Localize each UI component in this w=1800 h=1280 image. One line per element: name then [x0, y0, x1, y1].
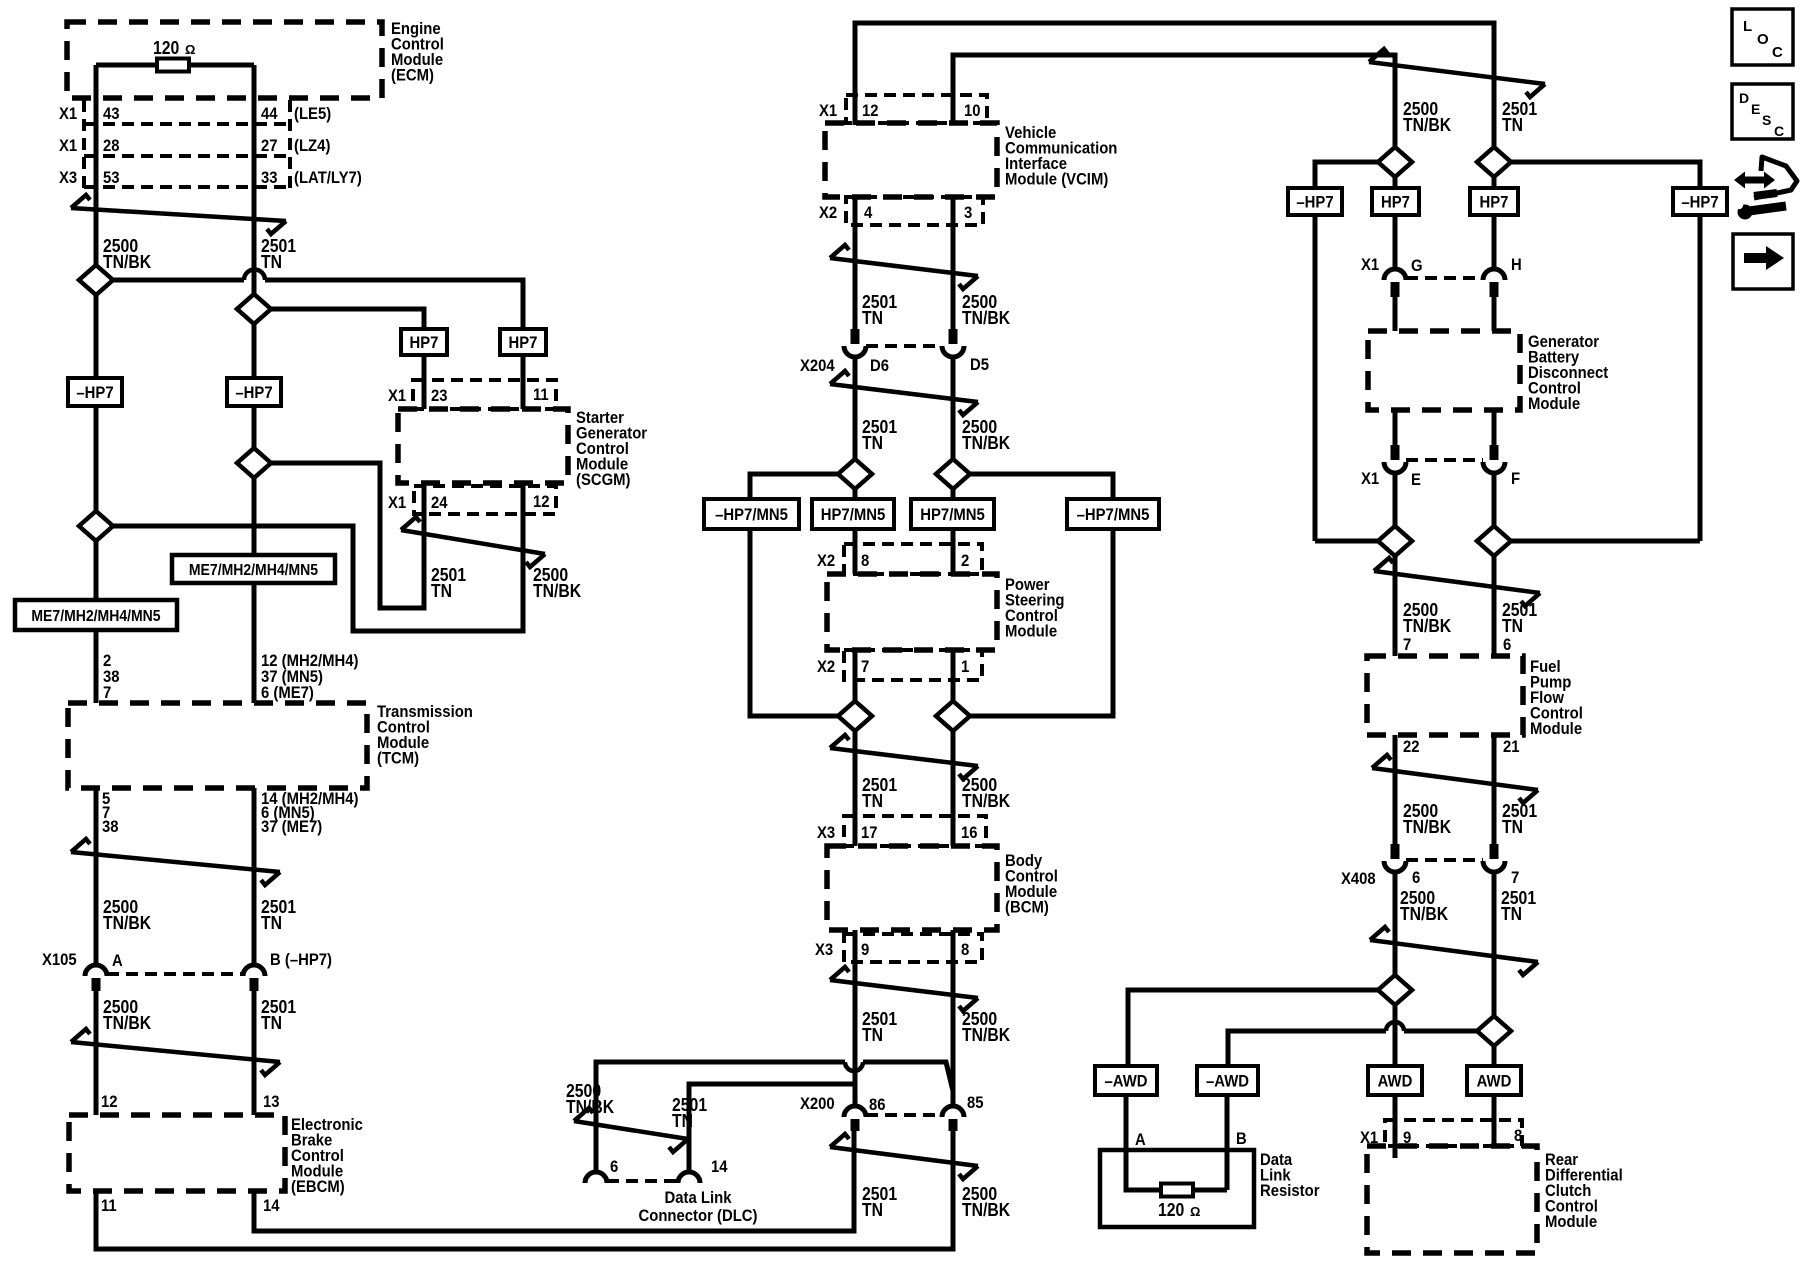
wire branch to -AWD left: [1128, 990, 1378, 1066]
wire branch to -HP7/MN5 right: [970, 474, 1113, 499]
svg-text:28: 28: [103, 136, 120, 155]
svg-text:TN: TN: [261, 913, 282, 933]
svg-text:Module: Module: [1005, 622, 1057, 641]
svg-text:X2: X2: [817, 657, 835, 676]
wire 2501 splice to FPFCM: [1492, 556, 1497, 656]
svg-text:24: 24: [431, 493, 448, 512]
svg-text:X1: X1: [59, 104, 77, 123]
svg-text:17: 17: [861, 823, 878, 842]
label box -AWD A: [1095, 1066, 1157, 1095]
svg-text:X200: X200: [800, 1094, 835, 1113]
wire 2501 splice to AWD: [1492, 1046, 1497, 1066]
svg-text:6 (ME7): 6 (ME7): [261, 683, 314, 702]
wire 2500 X105 to EBCM: [94, 991, 99, 1115]
wire 2501 diamond to HP7: [1492, 177, 1497, 188]
wire AWD to RDCCM pin 8: [1492, 1095, 1497, 1147]
connector row BCM X3 17/16: [844, 816, 986, 846]
svg-text:B: B: [1236, 1129, 1247, 1148]
label box HP7 right: [500, 329, 546, 355]
wire 2500 splice to AWD: [1393, 1005, 1398, 1066]
wire 2500 PSCM to splice: [951, 650, 956, 701]
splice diamond 2500 below PSCM: [936, 701, 970, 731]
wire 2501 TN VCIM pin 12 top bus to right section: [855, 23, 1494, 147]
svg-text:ME7/MH2/MH4/MN5: ME7/MH2/MH4/MN5: [31, 608, 160, 625]
svg-text:HP7: HP7: [509, 333, 538, 352]
row separator 2: [84, 154, 290, 158]
splice diamond 2501 top right: [1477, 147, 1511, 177]
wire 2500 TN/BK left trunk (ECM to X105): [94, 65, 99, 963]
icon LOC box: [1732, 9, 1793, 65]
svg-text:HP7: HP7: [1480, 193, 1509, 212]
label box HP7 on 2500: [1372, 188, 1419, 215]
svg-text:(LAT/LY7): (LAT/LY7): [294, 168, 362, 187]
svg-text:11: 11: [533, 385, 549, 404]
label box -HP7/MN5 left: [704, 499, 799, 529]
wire 2500 bus diagonal to X200 85: [863, 1062, 953, 1105]
twisted pair arrow below TCM: [71, 839, 280, 885]
module SCGM box: [398, 409, 568, 483]
wire branch to -HP7/MN5 left: [750, 474, 838, 499]
svg-text:HP7: HP7: [410, 333, 439, 352]
connector row PSCM X2 8/2: [844, 544, 982, 574]
module Generator Battery Disconnect Control Module box: [1368, 331, 1520, 410]
svg-text:X1: X1: [1361, 469, 1379, 488]
svg-text:(LZ4): (LZ4): [294, 136, 330, 155]
resistor 120 ohm data link: [1161, 1184, 1193, 1197]
svg-text:7: 7: [1403, 635, 1411, 654]
svg-text:O: O: [1757, 31, 1769, 48]
svg-text:TN: TN: [261, 1013, 282, 1033]
wire branch 2500 to HP7: [113, 280, 523, 329]
wire 2501 splice to PSCM: [853, 489, 858, 574]
svg-text:–HP7: –HP7: [76, 383, 113, 402]
wire F to splice: [1492, 473, 1497, 526]
inline connector X408: [1391, 844, 1400, 859]
wire 2500 DLC pin 6 riser and bus: [596, 1062, 845, 1171]
svg-text:(ECM): (ECM): [391, 66, 434, 85]
module EBCM box: [69, 1115, 285, 1191]
svg-text:X3: X3: [59, 168, 77, 187]
wire 2501 PSCM to splice: [853, 650, 858, 701]
svg-text:Module: Module: [1530, 719, 1582, 738]
svg-text:X1: X1: [1361, 255, 1379, 274]
svg-text:A: A: [112, 951, 123, 970]
wire 2500 X204 to splice: [951, 357, 956, 459]
svg-text:120: 120: [153, 38, 179, 58]
svg-text:TN: TN: [1501, 904, 1522, 924]
svg-text:D: D: [1739, 90, 1749, 106]
resistor 120 ohm inside ECM: [157, 59, 189, 72]
connector X1 E/F dashed link: [1406, 458, 1483, 462]
svg-text:F: F: [1511, 469, 1520, 488]
svg-text:1: 1: [961, 657, 969, 676]
wire -HP7/MN5 left return: [750, 529, 838, 716]
label box -AWD B: [1197, 1066, 1258, 1095]
svg-text:TN: TN: [862, 433, 883, 453]
connector DLC: [585, 1172, 607, 1183]
svg-text:X408: X408: [1341, 869, 1376, 888]
twisted pair arrow above FPFCM: [1374, 558, 1540, 606]
svg-text:–AWD: –AWD: [1206, 1072, 1249, 1091]
row separator 1: [84, 122, 290, 126]
module PSCM box: [827, 574, 997, 650]
wire GBDCM to X1 F: [1492, 410, 1497, 445]
label box HP7/MN5 right: [911, 499, 994, 529]
svg-text:(EBCM): (EBCM): [291, 1177, 345, 1196]
wire 2500 splice to PSCM: [951, 489, 956, 574]
svg-text:TN: TN: [672, 1111, 693, 1131]
connector rows ECM X1/X3: [84, 100, 290, 188]
svg-text:38: 38: [102, 817, 119, 836]
label box ME7/MH2/MH4/MN5 on 2501: [172, 555, 335, 583]
wire AWD to RDCCM pin 9: [1393, 1095, 1398, 1158]
svg-text:10: 10: [964, 101, 981, 120]
wire E to splice: [1393, 473, 1398, 526]
svg-text:TN/BK: TN/BK: [962, 1025, 1010, 1045]
wire HP7 to X1 G: [1393, 215, 1398, 268]
svg-text:E: E: [1411, 470, 1421, 489]
svg-text:33: 33: [261, 168, 278, 187]
twisted pair arrow below X204: [830, 371, 978, 415]
wire 2501 X204 to splice: [853, 357, 858, 459]
label box AWD left: [1368, 1066, 1422, 1095]
svg-text:Module (VCIM): Module (VCIM): [1005, 170, 1108, 189]
wire ECM internal resistor leads: [96, 63, 254, 68]
wire -HP7 left return: [1315, 215, 1378, 541]
wire GBDCM to X1 E: [1393, 410, 1398, 445]
connector X200 dashed link: [866, 1113, 941, 1117]
wire branch 2501 to HP7: [271, 309, 424, 329]
svg-text:6: 6: [610, 1157, 618, 1176]
svg-text:–HP7/MN5: –HP7/MN5: [715, 505, 788, 524]
svg-text:X1: X1: [59, 136, 77, 155]
splice diamond 2500 AWD: [1378, 975, 1412, 1005]
wire 2500 splice to FPFCM: [1393, 556, 1398, 656]
splice diamond 2501 mid: [237, 448, 271, 478]
module VCIM box: [825, 123, 997, 197]
svg-text:C: C: [1774, 123, 1784, 139]
wire 2501 TN right trunk (ECM to X105): [252, 65, 257, 963]
svg-text:Connector (DLC): Connector (DLC): [639, 1206, 758, 1225]
svg-text:TN/BK: TN/BK: [1403, 115, 1451, 135]
svg-text:D5: D5: [970, 355, 989, 374]
svg-text:–HP7/MN5: –HP7/MN5: [1077, 505, 1150, 524]
svg-text:8: 8: [861, 551, 869, 570]
svg-text:X3: X3: [817, 823, 835, 842]
svg-text:A: A: [1135, 1130, 1146, 1149]
label box -HP7 on 2500 trunk: [68, 378, 122, 406]
connector DLC dashed link: [607, 1179, 678, 1183]
svg-text:TN/BK: TN/BK: [962, 433, 1010, 453]
svg-text:TN: TN: [1502, 817, 1523, 837]
label box -HP7 far left right-section: [1288, 188, 1342, 215]
label box HP7/MN5 left: [812, 499, 894, 529]
label box ME7/MH2/MH4/MN5 on 2500: [15, 600, 177, 630]
svg-text:7: 7: [861, 657, 869, 676]
label box -HP7/MN5 right: [1067, 499, 1159, 529]
svg-text:TN: TN: [862, 308, 883, 328]
splice diamond 2500 upper: [79, 265, 113, 295]
splice diamond 2501 mid right: [1477, 526, 1511, 556]
svg-text:22: 22: [1403, 737, 1420, 756]
svg-text:23: 23: [431, 386, 448, 405]
twisted pair arrow above BCM: [830, 735, 978, 779]
wire branch to -HP7 left: [1315, 162, 1378, 188]
twisted pair arrow below ECM: [71, 195, 286, 234]
wire 2500 diamond to HP7: [1393, 177, 1398, 188]
svg-text:Ω: Ω: [185, 42, 195, 57]
svg-text:8: 8: [1514, 1126, 1522, 1145]
svg-text:37 (ME7): 37 (ME7): [261, 817, 322, 836]
svg-text:86: 86: [869, 1095, 886, 1114]
inline connector X200: [844, 1106, 866, 1117]
svg-text:HP7: HP7: [1381, 193, 1410, 212]
svg-text:ME7/MH2/MH4/MN5: ME7/MH2/MH4/MN5: [189, 562, 318, 579]
crossover hop 2500 branch over 2501 trunk: [244, 270, 265, 281]
twisted pair arrow below VCIM: [830, 245, 978, 289]
svg-text:16: 16: [961, 823, 978, 842]
svg-text:53: 53: [103, 168, 120, 187]
wire HP7 to SCGM pin 11: [521, 355, 526, 409]
svg-text:4: 4: [864, 203, 873, 222]
svg-text:TN: TN: [862, 1200, 883, 1220]
svg-text:3: 3: [964, 203, 972, 222]
svg-text:TN: TN: [862, 791, 883, 811]
svg-text:TN: TN: [1502, 115, 1523, 135]
svg-text:S: S: [1762, 112, 1771, 128]
box Data Link Resistor: [1100, 1150, 1254, 1227]
svg-text:6: 6: [1503, 635, 1511, 654]
svg-text:Ω: Ω: [1190, 1204, 1200, 1219]
svg-text:–AWD: –AWD: [1105, 1072, 1148, 1091]
svg-text:27: 27: [261, 136, 278, 155]
module BCM box: [827, 846, 997, 930]
wire HP7 to SCGM pin 23: [422, 355, 427, 409]
svg-text:14: 14: [711, 1157, 728, 1176]
svg-text:6: 6: [1412, 868, 1420, 887]
svg-text:X1: X1: [388, 493, 406, 512]
svg-text:Data Link: Data Link: [665, 1188, 732, 1207]
svg-text:AWD: AWD: [1378, 1072, 1413, 1091]
module Fuel Pump Flow Control Module box: [1367, 656, 1523, 735]
wire data link resistor loop: [1126, 1095, 1227, 1190]
connector row PSCM X2 7/1: [844, 650, 982, 680]
icon double arrow with wrench: [1734, 157, 1797, 220]
crossover hop -AWD branch over 2500 wire: [1386, 1022, 1404, 1031]
connector X105 dashed link: [107, 972, 243, 976]
svg-text:X204: X204: [800, 356, 835, 375]
wire 2500 BCM pin 8 to X200: [951, 930, 956, 1105]
wire 2501 DLC pin 14 riser to junction: [689, 1084, 854, 1171]
connector X1 G/H dashed link: [1406, 276, 1483, 280]
label box HP7 left: [401, 329, 447, 355]
svg-text:(TCM): (TCM): [377, 749, 419, 768]
svg-text:44: 44: [261, 104, 278, 123]
label box HP7 on 2501: [1470, 188, 1518, 215]
svg-text:X1: X1: [819, 101, 837, 120]
svg-text:–HP7: –HP7: [1681, 193, 1718, 212]
inline connector X204: [851, 329, 860, 344]
svg-text:Module: Module: [1528, 394, 1580, 413]
svg-text:C: C: [1772, 44, 1783, 61]
twisted pair arrow below BCM: [830, 967, 978, 1011]
splice diamond 2501 below PSCM: [838, 701, 872, 731]
svg-text:9: 9: [861, 940, 869, 959]
svg-text:X105: X105: [42, 950, 77, 969]
connector row VCIM X2 4/3: [846, 197, 983, 225]
twisted pair arrow below X408: [1370, 927, 1538, 975]
wire -HP7 right return: [1511, 215, 1700, 541]
svg-text:E: E: [1751, 101, 1760, 117]
splice diamond 2500 mid: [79, 511, 113, 541]
wire 2500 bottom bus EBCM pin 11 to X200 85: [96, 1131, 953, 1249]
connector X204 dashed link: [866, 344, 941, 348]
twisted pair arrow below SCGM: [401, 517, 545, 567]
wire 2500 X408 to splice: [1393, 872, 1398, 975]
wire 2501 VCIM to X204: [853, 197, 858, 329]
svg-text:X1: X1: [388, 386, 406, 405]
svg-text:X2: X2: [817, 551, 835, 570]
label box -HP7 on 2501 trunk: [227, 378, 281, 406]
splice diamond 2500 above PSCM: [936, 459, 970, 489]
svg-text:TN/BK: TN/BK: [962, 308, 1010, 328]
twisted pair arrow top right: [1369, 49, 1545, 97]
wire 2500 TN/BK VCIM pin 10 top bus to right section: [953, 55, 1395, 147]
svg-text:HP7/MN5: HP7/MN5: [821, 505, 886, 524]
label box AWD right: [1467, 1066, 1521, 1095]
wire G into GBDCM: [1393, 297, 1398, 331]
wire 2501 FPFCM to X408: [1492, 735, 1497, 844]
svg-text:TN/BK: TN/BK: [533, 581, 581, 601]
svg-text:TN/BK: TN/BK: [103, 252, 151, 272]
svg-text:TN/BK: TN/BK: [962, 791, 1010, 811]
svg-text:85: 85: [967, 1093, 984, 1112]
wire 2500 splice to BCM: [951, 731, 956, 846]
svg-text:Resistor: Resistor: [1260, 1181, 1320, 1200]
icon arrow box: [1733, 234, 1793, 289]
wire 2501 BCM pin 9 to X200: [853, 930, 858, 1105]
svg-text:TN/BK: TN/BK: [1400, 904, 1448, 924]
splice diamond 2501 upper: [237, 294, 271, 324]
svg-text:–HP7: –HP7: [235, 383, 272, 402]
inline connector X1 E/F: [1391, 445, 1400, 460]
wire SCGM pin 12 return 2500 TN/BK: [113, 483, 523, 631]
svg-text:12: 12: [533, 492, 550, 511]
svg-text:11: 11: [101, 1196, 117, 1215]
inline connector X105: [85, 965, 107, 976]
svg-text:21: 21: [1503, 737, 1520, 756]
wire 2501 X408 to splice: [1492, 872, 1497, 1015]
svg-text:7: 7: [103, 683, 111, 702]
svg-text:13: 13: [263, 1092, 280, 1111]
wire 2501 bottom bus EBCM pin 14 to X200 86: [254, 1131, 854, 1231]
module Rear Differential Clutch Control Module box: [1367, 1146, 1537, 1253]
svg-text:43: 43: [103, 104, 120, 123]
svg-text:TN/BK: TN/BK: [103, 913, 151, 933]
splice diamond 2500 mid right: [1378, 526, 1412, 556]
svg-text:TN/BK: TN/BK: [962, 1200, 1010, 1220]
svg-text:7: 7: [1511, 868, 1519, 887]
svg-text:G: G: [1411, 256, 1423, 275]
wire H into GBDCM: [1492, 297, 1497, 331]
svg-text:(LE5): (LE5): [294, 104, 331, 123]
svg-text:TN/BK: TN/BK: [1403, 616, 1451, 636]
svg-text:X3: X3: [815, 940, 833, 959]
wire HP7 to X1 H: [1492, 215, 1497, 268]
svg-text:X2: X2: [819, 203, 837, 222]
svg-text:120: 120: [1158, 1200, 1184, 1220]
label box -HP7 far right: [1673, 188, 1727, 215]
twisted pair arrow at DLC: [574, 1108, 688, 1152]
svg-text:TN: TN: [862, 1025, 883, 1045]
svg-text:TN/BK: TN/BK: [1403, 817, 1451, 837]
connector row BCM X3 9/8: [844, 934, 982, 962]
module TCM box: [68, 703, 367, 788]
svg-text:(BCM): (BCM): [1005, 898, 1049, 917]
connector row SCGM X1 24/12: [414, 486, 556, 514]
twisted pair arrow above EBCM: [71, 1029, 280, 1075]
module ECM box: [67, 22, 382, 98]
twisted pair arrow below X200: [830, 1134, 978, 1179]
svg-text:AWD: AWD: [1477, 1072, 1512, 1091]
wire SCGM pin 24 return 2501 TN: [271, 463, 424, 608]
svg-text:L: L: [1743, 18, 1752, 35]
icon DESC box: [1732, 84, 1793, 139]
svg-text:2: 2: [961, 551, 969, 570]
svg-text:TN: TN: [1502, 616, 1523, 636]
svg-text:8: 8: [961, 940, 969, 959]
splice diamond 2500 top right: [1378, 147, 1412, 177]
svg-text:–HP7: –HP7: [1296, 193, 1333, 212]
wire branch to -HP7 right: [1511, 162, 1700, 188]
svg-text:12: 12: [862, 101, 879, 120]
splice diamond 2501 above PSCM: [838, 459, 872, 489]
crossover hop DLC 2500 bus under 2501 wire: [845, 1062, 863, 1071]
connector row VCIM X1 12/10: [846, 95, 987, 123]
wire 2501 X105 to EBCM: [252, 991, 257, 1115]
svg-text:B (–HP7): B (–HP7): [270, 950, 332, 969]
svg-text:(SCGM): (SCGM): [576, 470, 631, 489]
twisted pair arrow below FPFCM: [1372, 755, 1538, 803]
svg-text:12: 12: [101, 1092, 118, 1111]
connector row SCGM X1 23/11: [413, 380, 556, 409]
svg-text:TN/BK: TN/BK: [103, 1013, 151, 1033]
inline connector X1 G/H: [1384, 269, 1406, 280]
svg-text:TN: TN: [431, 581, 452, 601]
svg-text:Module: Module: [1545, 1212, 1597, 1231]
svg-text:D6: D6: [870, 356, 889, 375]
svg-text:TN: TN: [261, 252, 282, 272]
splice diamond 2501 AWD: [1477, 1016, 1511, 1046]
connector row RDCCM X1 9/8: [1385, 1120, 1522, 1146]
svg-text:HP7/MN5: HP7/MN5: [920, 505, 985, 524]
wire -HP7/MN5 right return: [970, 529, 1113, 716]
wire 2500 FPFCM to X408: [1393, 735, 1398, 844]
connector X408 dashed link: [1406, 858, 1483, 862]
wire branch to -AWD right with hop: [1404, 1029, 1477, 1034]
svg-text:H: H: [1511, 255, 1522, 274]
svg-text:14: 14: [263, 1196, 280, 1215]
wire 2501 splice to BCM: [853, 731, 858, 846]
wire 2500 VCIM to X204: [951, 197, 956, 329]
